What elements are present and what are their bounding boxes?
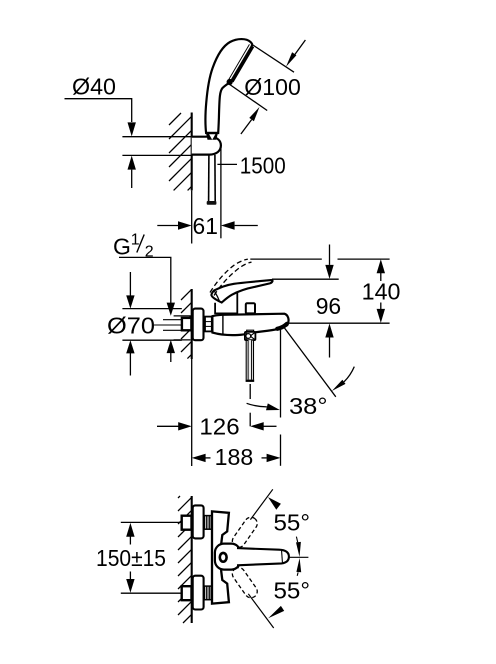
diverter knob (square) <box>246 303 255 313</box>
55° upper leader line <box>250 489 272 519</box>
38° arrow at diagonal <box>332 380 346 391</box>
Ø100 extension line lower <box>229 84 267 111</box>
wall hatch (top section) <box>169 113 192 190</box>
wall face line (top section) <box>191 113 193 191</box>
svg-text:G: G <box>113 233 131 259</box>
Ø100 dimension line lower tail <box>241 120 252 134</box>
svg-text:Ø40: Ø40 <box>72 74 116 100</box>
svg-text:140: 140 <box>362 278 401 304</box>
svg-text:Ø100: Ø100 <box>244 74 300 100</box>
wall extension line down to 61 dim <box>191 190 193 243</box>
extension line y323 (spout outlet level) <box>288 322 390 324</box>
wall hatch (middle section) <box>181 290 192 359</box>
svg-text:126: 126 <box>199 413 239 439</box>
38° arrow at vertical <box>266 403 280 410</box>
top supply elbow union nut <box>182 516 192 530</box>
handle blade (top view) <box>237 548 289 565</box>
threaded nipple shading <box>249 340 253 380</box>
top elbow threaded nipple <box>205 516 212 530</box>
hose outlet fitting (square with cross) <box>247 330 254 332</box>
126 left arrow <box>178 422 192 430</box>
G 1/2 lower arrow <box>167 340 175 353</box>
Ø40 lower extension line (holder bottom) <box>122 154 191 156</box>
svg-text:188: 188 <box>215 444 254 470</box>
valve bracket body (top view) <box>212 511 229 603</box>
svg-text:1500: 1500 <box>240 152 286 178</box>
126 right arrow <box>250 422 264 430</box>
shower holder bracket <box>192 137 221 155</box>
svg-text:Ø70: Ø70 <box>107 313 155 339</box>
small arrow upper (0° ref) <box>296 537 297 543</box>
61 right extension line <box>220 145 222 238</box>
svg-text:55°: 55° <box>274 510 311 536</box>
bottom supply elbow union nut <box>182 586 192 600</box>
dimension 1500 leader <box>217 163 237 165</box>
wall face line (middle section) <box>191 289 193 359</box>
Ø70 lower arrow tail <box>129 353 131 376</box>
lever raised (dashed) outline B <box>214 262 252 295</box>
55° upper arrow <box>268 497 281 510</box>
supply pipe G1/2 stub <box>163 319 182 321</box>
threaded nipple inner lines <box>247 340 249 380</box>
G 1/2 slash <box>137 235 144 253</box>
Ø100 dimension line upper tail <box>294 40 305 55</box>
extension line y259 (lever raised level) <box>250 258 321 260</box>
Ø100 upper arrow <box>286 52 296 66</box>
G 1/2 lower arrow tail <box>170 353 172 362</box>
188 right arrow <box>267 454 281 462</box>
Ø100 extension line upper <box>253 45 294 72</box>
small arrow lower (0° ref) <box>296 572 299 575</box>
valve boss (top view) <box>215 544 240 570</box>
hose end cap <box>207 201 217 205</box>
150±15 lower arrow <box>129 572 131 580</box>
svg-text:1: 1 <box>131 231 140 248</box>
38° reference diagonal (water stream) <box>283 326 336 397</box>
61 right arrow <box>221 221 235 229</box>
faucet body with spout <box>212 314 288 335</box>
face lower end blob <box>227 79 233 85</box>
lever raised (dashed) outline A <box>210 259 248 292</box>
S-union nut <box>205 317 212 332</box>
Ø40 upper arrow <box>128 122 136 136</box>
svg-text:61: 61 <box>193 213 218 239</box>
handle centerline <box>289 556 309 558</box>
bottom elbow escutcheon <box>193 576 204 610</box>
dimension 61 left arrow tail <box>157 225 178 227</box>
Ø70 upper extension line <box>122 308 181 310</box>
96 lower arrow <box>325 324 333 338</box>
cone white notch <box>209 134 215 139</box>
union nut on wall <box>182 318 192 330</box>
96 upper arrow <box>325 265 333 279</box>
shower spray face (dark band) <box>231 46 252 81</box>
38° arc upper tail <box>344 367 354 382</box>
55° lower arrow <box>268 606 284 618</box>
spout tip vertical extension <box>280 330 282 418</box>
svg-text:96: 96 <box>316 293 342 319</box>
dimension 140 upper arrow <box>377 259 385 273</box>
Ø40 leader underline <box>65 99 132 122</box>
wall extension line down to 126/188 dims <box>191 359 193 466</box>
G 1/2 lower short extension <box>174 339 191 341</box>
svg-text:150±15: 150±15 <box>96 545 166 571</box>
Ø40 lower arrow tail <box>131 170 133 188</box>
Ø70 upper arrow <box>126 295 134 308</box>
55° lower leader line <box>248 594 273 628</box>
150±15 upper extension line <box>121 521 182 523</box>
Ø40 upper extension line (holder top) <box>122 136 191 138</box>
bottom elbow threaded nipple <box>205 586 212 600</box>
150±15 upper arrow <box>126 523 134 537</box>
cartridge housing <box>215 284 237 314</box>
dashed handle rotated down 55° <box>230 565 260 600</box>
G 1/2 upper arrow <box>167 303 175 316</box>
dimension 126 left tail <box>157 425 179 427</box>
svg-text:55°: 55° <box>274 578 311 604</box>
dimension 96 upper arrow tail <box>329 245 331 265</box>
38° arc lower tail <box>247 403 267 407</box>
dimension 188 left arrow <box>192 454 206 462</box>
body joint line <box>222 315 224 334</box>
140 lower arrow <box>380 303 382 310</box>
Ø70 lower extension line <box>122 339 181 341</box>
126 right tail <box>264 425 277 427</box>
escutcheon Ø70 <box>193 309 204 341</box>
hose outlet vertical extension <box>249 384 251 399</box>
cone grip end (dark wedge in holder) <box>206 132 219 140</box>
Ø100 lower arrow <box>249 107 259 121</box>
wall hatch (bottom section) <box>178 496 192 623</box>
supply pipe centerline <box>154 324 219 326</box>
boss inner oval <box>220 553 227 562</box>
hand shower body (head + grip) <box>205 39 252 133</box>
61 right arrow tail <box>235 225 258 227</box>
lever handle (solid) <box>211 280 272 302</box>
150±15 lower extension line <box>121 592 182 594</box>
blade tip joint <box>282 550 283 564</box>
nipple end cap <box>246 380 255 382</box>
Ø70 upper arrow tail <box>129 272 131 296</box>
Ø40 lower arrow <box>128 156 136 170</box>
outlet circle <box>246 334 251 339</box>
threaded nipple outer lines <box>245 340 247 380</box>
lever nose facet line <box>215 291 220 302</box>
96 lower arrow tail <box>329 338 331 358</box>
wall face line (bottom section) <box>191 496 193 623</box>
extension line y279 (lever rest level) <box>272 278 339 280</box>
Ø70 lower arrow <box>126 340 134 353</box>
shower hose <box>208 155 210 202</box>
svg-text:38°: 38° <box>289 393 328 419</box>
dashed handle rotated up 55° <box>230 515 260 550</box>
G 1/2 upper short extension <box>174 315 191 317</box>
top elbow escutcheon <box>193 505 204 538</box>
aerator (dark) <box>277 324 287 329</box>
G 1/2 leader <box>119 257 171 303</box>
61 left arrow <box>178 221 192 229</box>
